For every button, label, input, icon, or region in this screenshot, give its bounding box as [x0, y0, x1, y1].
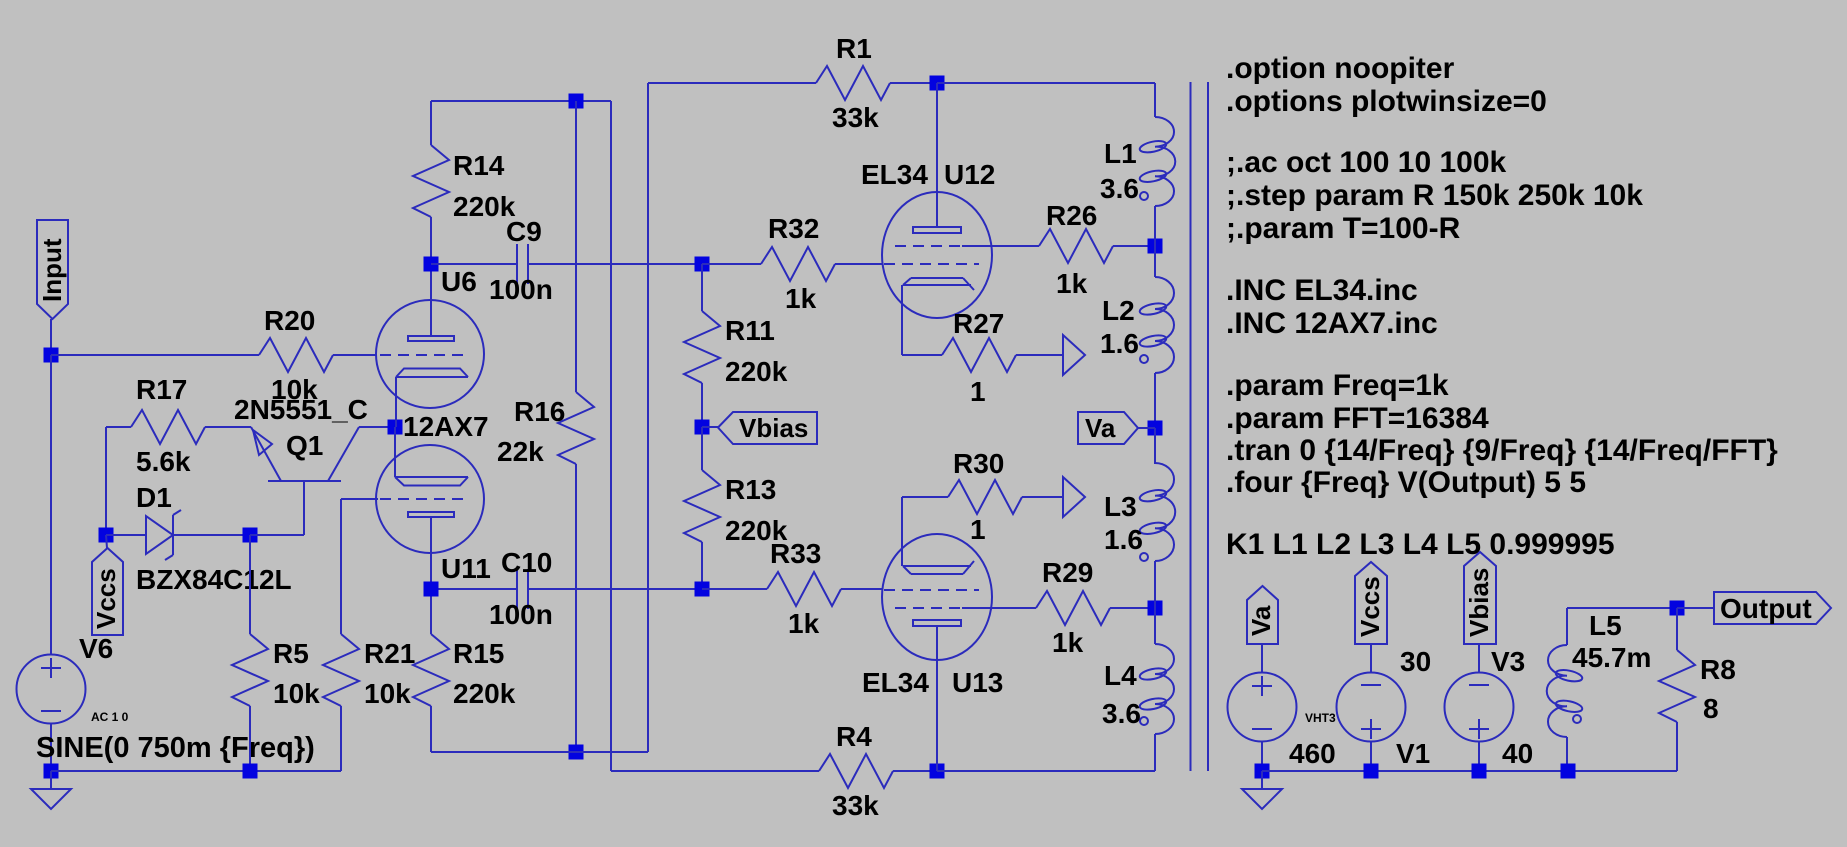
svg-text:R1: R1 — [836, 33, 872, 64]
node junction R16 bottom — [569, 745, 584, 760]
svg-text:U6: U6 — [441, 266, 477, 297]
svg-text:Q1: Q1 — [286, 430, 323, 461]
svg-text:K1 L1 L2 L3 L4 L5 0.999995: K1 L1 L2 L3 L4 L5 0.999995 — [1226, 528, 1615, 561]
label V1 — [1396, 738, 1430, 769]
svg-text:R4: R4 — [836, 721, 872, 752]
resistor R1 — [816, 66, 937, 100]
node junction R16 top — [569, 94, 584, 109]
value R14 220k — [453, 191, 516, 222]
resistor R8 — [1659, 608, 1695, 771]
net flag Vbias middle — [702, 412, 817, 444]
node junction D1 anode — [99, 528, 114, 543]
svg-text:SINE(0 750m {Freq}): SINE(0 750m {Freq}) — [36, 732, 315, 764]
wire R17 left vertical — [105, 427, 107, 535]
label R11 — [725, 315, 775, 346]
svg-text:VHT3: VHT3 — [1305, 711, 1336, 725]
label R5 — [273, 638, 309, 669]
svg-text:L3: L3 — [1104, 491, 1137, 522]
label R32 — [768, 213, 819, 244]
svg-text:.tran 0 {14/Freq} {9/Freq} {14: .tran 0 {14/Freq} {9/Freq} {14/Freq/FFT} — [1226, 434, 1778, 467]
resistor R30 — [902, 480, 1063, 514]
node junction D1 cathode — [243, 528, 258, 543]
svg-text:R30: R30 — [953, 448, 1004, 479]
value R16 22k — [497, 436, 544, 467]
transformer core — [1191, 82, 1209, 771]
net flag Va bottom — [1246, 586, 1278, 644]
voltage source V1 30 — [1337, 644, 1406, 771]
svg-text:3.6: 3.6 — [1100, 173, 1139, 204]
node junction C10-R15 — [424, 582, 439, 597]
wire D1 to Q1 base — [250, 481, 304, 535]
wire top row left — [431, 100, 611, 102]
svg-text:L1: L1 — [1104, 138, 1137, 169]
svg-text:10k: 10k — [364, 678, 411, 709]
svg-text:Input: Input — [37, 238, 67, 302]
svg-text:.options plotwinsize=0: .options plotwinsize=0 — [1226, 85, 1547, 118]
label V6 — [79, 633, 113, 664]
inductor L5 secondary — [1547, 608, 1583, 771]
svg-text:L5: L5 — [1589, 610, 1622, 641]
label Q1 — [286, 430, 323, 461]
resistor R27 — [902, 338, 1063, 372]
net flag Va middle — [1078, 412, 1155, 444]
svg-text:R15: R15 — [453, 638, 504, 669]
wire R1 row — [648, 82, 816, 84]
svg-text:Va: Va — [1246, 605, 1276, 636]
resistor R29 — [992, 591, 1155, 625]
node junction U13 plate bottom — [930, 764, 945, 779]
svg-text:;.ac oct 100 10 100k: ;.ac oct 100 10 100k — [1226, 146, 1507, 179]
diode D1 zener BZX84C12L — [106, 510, 250, 560]
label Q1 2N5551_C — [234, 394, 368, 425]
resistor R21 — [323, 499, 359, 771]
value R27 1 — [970, 376, 986, 407]
svg-text:;.param T=100-R: ;.param T=100-R — [1226, 212, 1461, 245]
svg-text:L2: L2 — [1102, 295, 1135, 326]
wire Input stem — [50, 319, 52, 355]
svg-text:V6: V6 — [79, 633, 113, 664]
node junction Va tap — [1148, 421, 1163, 436]
svg-text:L4: L4 — [1104, 660, 1137, 691]
ground at V6 — [31, 771, 71, 809]
label R16 — [514, 396, 565, 427]
label U12 — [944, 159, 995, 190]
svg-text:R32: R32 — [768, 213, 819, 244]
value R20 10k — [271, 374, 318, 405]
arrow flag R27 — [1063, 335, 1085, 375]
svg-text:.INC 12AX7.inc: .INC 12AX7.inc — [1226, 307, 1438, 340]
transistor Q1 2N5551 — [251, 427, 395, 481]
label L4 — [1104, 660, 1137, 691]
value 460 — [1289, 738, 1336, 769]
svg-text:R17: R17 — [136, 374, 187, 405]
resistor R14 — [413, 101, 449, 264]
value R11 220k — [725, 356, 788, 387]
label R8 — [1700, 654, 1736, 685]
value R30 1 — [970, 514, 986, 545]
value 30 — [1400, 646, 1431, 677]
node junction L1-L2 tap — [1148, 239, 1163, 254]
svg-text:5.6k: 5.6k — [136, 446, 191, 477]
svg-text:1k: 1k — [1052, 627, 1084, 658]
wire input row — [51, 354, 259, 356]
node junction V6 bottom — [44, 764, 59, 779]
svg-text:R14: R14 — [453, 150, 505, 181]
resistor R11 — [684, 264, 720, 427]
value L5 45.7m — [1572, 642, 1651, 673]
inductor L2 — [1139, 246, 1174, 428]
svg-text:;.step param R 150k 250k 10k: ;.step param R 150k 250k 10k — [1226, 179, 1643, 212]
triode U6 — [376, 264, 484, 427]
svg-text:EL34: EL34 — [862, 667, 929, 698]
svg-text:U13: U13 — [952, 667, 1003, 698]
svg-text:12AX7: 12AX7 — [403, 411, 489, 442]
svg-text:U12: U12 — [944, 159, 995, 190]
wire bottom row to L4 — [937, 734, 1155, 771]
node junction R11 top — [695, 257, 710, 272]
svg-text:460: 460 — [1289, 738, 1336, 769]
svg-text:R5: R5 — [273, 638, 309, 669]
resistor R15 — [413, 589, 449, 752]
value R13 220k — [725, 515, 788, 546]
node junction U12 plate top — [930, 76, 945, 91]
net flag Input — [37, 220, 68, 319]
node junction input — [44, 348, 59, 363]
resistor R16 — [558, 101, 594, 752]
value R32 1k — [785, 283, 817, 314]
svg-text:22k: 22k — [497, 436, 544, 467]
wire R21 to U11 grid — [341, 498, 378, 500]
svg-text:R29: R29 — [1042, 557, 1093, 588]
value V6 AC 1 0 — [91, 710, 129, 724]
net flag Vccs bottom — [1355, 562, 1387, 644]
label R26 — [1046, 200, 1097, 231]
label R33 — [770, 538, 821, 569]
inductor L3 — [1139, 428, 1175, 608]
label R21 — [364, 638, 415, 669]
label R4 — [836, 721, 872, 752]
inductor L1 — [1139, 117, 1176, 246]
label L3 — [1104, 491, 1137, 522]
svg-text:R27: R27 — [953, 308, 1004, 339]
resistor R32 — [702, 247, 883, 281]
resistor R17 — [106, 410, 251, 444]
value D1 BZX84C12L — [136, 564, 292, 595]
svg-text:1: 1 — [970, 376, 986, 407]
svg-text:1k: 1k — [785, 283, 817, 314]
svg-text:1k: 1k — [1056, 268, 1088, 299]
arrow flag R30 — [1063, 477, 1085, 517]
value R33 1k — [788, 608, 820, 639]
svg-text:.option noopiter: .option noopiter — [1226, 52, 1455, 85]
label U13 — [952, 667, 1003, 698]
svg-text:R8: R8 — [1700, 654, 1736, 685]
voltage source V6 — [17, 655, 86, 772]
wire bottom-left rail — [51, 770, 341, 772]
voltage source Va 460 — [1228, 644, 1297, 771]
svg-text:R20: R20 — [264, 305, 315, 336]
label L2 — [1102, 295, 1135, 326]
svg-text:8: 8 — [1703, 693, 1719, 724]
label L1 — [1104, 138, 1137, 169]
label C9 — [506, 216, 542, 247]
wire output row — [1567, 607, 1677, 609]
svg-text:220k: 220k — [453, 678, 516, 709]
svg-text:C10: C10 — [501, 547, 552, 578]
svg-text:30: 30 — [1400, 646, 1431, 677]
svg-text:Output: Output — [1720, 593, 1812, 624]
svg-text:1.6: 1.6 — [1100, 328, 1139, 359]
svg-text:.param FFT=16384: .param FFT=16384 — [1226, 402, 1489, 435]
svg-text:.param Freq=1k: .param Freq=1k — [1226, 369, 1449, 402]
svg-text:40: 40 — [1502, 738, 1533, 769]
value L1 3.6 — [1100, 173, 1139, 204]
label R27 — [953, 308, 1004, 339]
ground bottom right — [1242, 771, 1282, 809]
label R1 — [836, 33, 872, 64]
svg-text:Vccs: Vccs — [91, 568, 121, 629]
wire top row to L1 — [937, 83, 1155, 117]
label R30 — [953, 448, 1004, 479]
value C10 100n — [489, 599, 553, 630]
wire sources rail — [1262, 770, 1677, 772]
node junction Q1 collector — [388, 420, 403, 435]
node junction output — [1670, 601, 1685, 616]
svg-text:2N5551_C: 2N5551_C — [234, 394, 368, 425]
triode U11 — [376, 427, 484, 589]
value L2 1.6 — [1100, 328, 1139, 359]
svg-text:R33: R33 — [770, 538, 821, 569]
node junction R13 bottom — [695, 582, 710, 597]
value R1 33k — [832, 102, 879, 133]
wire feedback vertical x648 — [647, 83, 649, 752]
label R17 — [136, 374, 187, 405]
svg-text:Vccs: Vccs — [1355, 576, 1385, 637]
node junction gnd rail — [1255, 764, 1270, 779]
voltage source V3 40 — [1445, 644, 1514, 771]
capacitor C9 — [431, 244, 702, 284]
capacitor C10 — [431, 569, 702, 609]
net flag Vbias bottom — [1464, 552, 1496, 644]
value C9 100n — [489, 274, 553, 305]
net flag Vccs left — [91, 548, 123, 635]
svg-text:Vbias: Vbias — [1464, 568, 1494, 637]
svg-text:1k: 1k — [788, 608, 820, 639]
wire flag stem Vccs — [106, 535, 107, 548]
wire input down to V6 — [50, 355, 52, 654]
value R15 220k — [453, 678, 516, 709]
svg-text:Va: Va — [1085, 413, 1116, 443]
label R20 — [264, 305, 315, 336]
svg-text:R26: R26 — [1046, 200, 1097, 231]
label VHT3 — [1305, 711, 1336, 725]
svg-text:45.7m: 45.7m — [1572, 642, 1651, 673]
label EL34 U12 — [861, 159, 928, 190]
wire bottom row x611 — [611, 770, 819, 772]
resistor R33 — [702, 572, 883, 606]
wire bottom rail R15-R16-x648 — [431, 751, 648, 753]
svg-text:AC 1 0: AC 1 0 — [91, 710, 129, 724]
svg-text:EL34: EL34 — [861, 159, 928, 190]
node junction V3 bottom — [1472, 764, 1487, 779]
svg-text:R13: R13 — [725, 474, 776, 505]
resistor R5 — [232, 535, 268, 771]
resistor R20 — [259, 338, 377, 372]
label U6 — [441, 266, 477, 297]
svg-text:C9: C9 — [506, 216, 542, 247]
value R17 5.6k — [136, 446, 191, 477]
node junction R5 bottom — [243, 764, 258, 779]
label R29 — [1042, 557, 1093, 588]
svg-text:1.6: 1.6 — [1104, 524, 1143, 555]
svg-text:100n: 100n — [489, 599, 553, 630]
svg-text:R21: R21 — [364, 638, 415, 669]
svg-text:R16: R16 — [514, 396, 565, 427]
value L4 3.6 — [1102, 698, 1141, 729]
pentode U13 — [882, 497, 992, 771]
svg-text:BZX84C12L: BZX84C12L — [136, 564, 292, 595]
svg-text:33k: 33k — [832, 790, 879, 821]
value R4 33k — [832, 790, 879, 821]
label R15 — [453, 638, 504, 669]
svg-text:.four {Freq} V(Output) 5 5: .four {Freq} V(Output) 5 5 — [1226, 466, 1586, 499]
node junction L3-L4 tap — [1148, 601, 1163, 616]
net flag Output — [1677, 592, 1831, 624]
value R26 1k — [1056, 268, 1088, 299]
svg-text:100n: 100n — [489, 274, 553, 305]
value 40 — [1502, 738, 1533, 769]
svg-text:R11: R11 — [725, 315, 775, 346]
resistor R13 — [684, 427, 720, 589]
label EL34 U13 — [862, 667, 929, 698]
inductor L4 — [1139, 608, 1174, 771]
node junction L5 bottom — [1561, 764, 1576, 779]
label C10 — [501, 547, 552, 578]
svg-text:D1: D1 — [136, 482, 172, 513]
label R14 — [453, 150, 505, 181]
value R5 10k — [273, 678, 320, 709]
svg-text:.INC EL34.inc: .INC EL34.inc — [1226, 274, 1418, 307]
svg-text:1: 1 — [970, 514, 986, 545]
node junction V1 bottom — [1364, 764, 1379, 779]
svg-text:3.6: 3.6 — [1102, 698, 1141, 729]
node junction Vbias tap — [695, 420, 710, 435]
svg-text:10k: 10k — [273, 678, 320, 709]
resistor R4 — [819, 754, 937, 788]
spice directives text block — [1226, 52, 1778, 561]
value R21 10k — [364, 678, 411, 709]
value R29 1k — [1052, 627, 1084, 658]
value V6 SINE — [36, 732, 315, 764]
svg-text:U11: U11 — [441, 553, 491, 584]
pentode U12 — [882, 83, 992, 355]
svg-text:33k: 33k — [832, 102, 879, 133]
label D1 — [136, 482, 172, 513]
value R8 8 — [1703, 693, 1719, 724]
value L3 1.6 — [1104, 524, 1143, 555]
resistor R26 — [992, 229, 1155, 263]
label V3 — [1491, 646, 1525, 677]
label 12AX7 — [403, 411, 489, 442]
label L5 — [1589, 610, 1622, 641]
svg-text:V1: V1 — [1396, 738, 1430, 769]
svg-text:Vbias: Vbias — [739, 413, 808, 443]
wire mid vertical x611 — [610, 101, 612, 771]
label U11 — [441, 553, 491, 584]
label R13 — [725, 474, 776, 505]
svg-text:220k: 220k — [725, 356, 788, 387]
svg-text:V3: V3 — [1491, 646, 1525, 677]
node junction plate U6 — [424, 257, 439, 272]
